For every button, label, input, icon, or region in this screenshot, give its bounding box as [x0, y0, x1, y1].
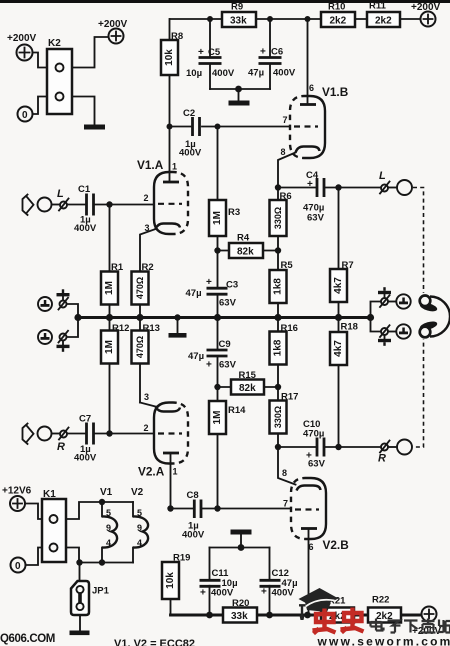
node C2 right R3 junction: [215, 124, 221, 130]
svg-text:C8: C8: [187, 490, 199, 501]
svg-text:+: +: [261, 587, 267, 598]
node C8 left junction: [167, 505, 173, 511]
svg-text:1M: 1M: [104, 340, 115, 354]
svg-text:1k8: 1k8: [273, 339, 284, 356]
terminal +200V bottom right: [412, 607, 442, 638]
node R3-R4-C3 junction: [214, 247, 220, 253]
resistor R17 330: [270, 387, 299, 447]
terminal +200V top right: [411, 2, 441, 27]
ground below C5/C6: [229, 89, 250, 106]
svg-text:R10: R10: [328, 2, 345, 13]
svg-text:1M: 1M: [104, 281, 115, 295]
wire K1 bottom contact to heaters: [66, 548, 133, 563]
resistor R19 10k: [162, 553, 190, 616]
terminal +200V K2 output: [98, 19, 128, 44]
capacitor C2 1u 400V: [170, 108, 291, 159]
capacitor C6 47u 400V: [248, 19, 296, 89]
node rail-C11 junction: [206, 612, 213, 619]
jack headphone R (circle with plug): [388, 324, 411, 338]
svg-text:9: 9: [106, 523, 111, 533]
svg-text:6: 6: [309, 83, 314, 93]
svg-text:47µ: 47µ: [248, 68, 264, 79]
watermark character chong 2: [341, 608, 364, 633]
wire +12V6 to K1: [25, 504, 42, 520]
node R15-R16-R17 junction: [275, 384, 281, 390]
wire V2.A anode to C8: [170, 453, 172, 509]
node C11-C12 common junction: [238, 544, 245, 551]
svg-text:+200V: +200V: [7, 33, 37, 44]
svg-text:1: 1: [172, 162, 177, 172]
svg-text:R22: R22: [372, 595, 389, 606]
node R17 / V2.B cathode / C10: [275, 444, 281, 450]
svg-text:400V: 400V: [182, 530, 205, 541]
triode V1.A: [137, 158, 188, 234]
wire C11/C12 common top: [210, 547, 270, 549]
watermark graduation cap: [299, 588, 339, 620]
resistor R13 470: [132, 318, 149, 403]
svg-text:V1.A: V1.A: [137, 158, 164, 172]
caption Q606.COM: [0, 633, 55, 645]
svg-text:10k: 10k: [164, 49, 175, 66]
resistor R9 33k: [222, 2, 256, 28]
svg-text:V1.B: V1.B: [322, 85, 348, 99]
node heater top V1 junction: [99, 499, 105, 505]
input plug L: [23, 195, 34, 216]
svg-text:R6: R6: [280, 191, 292, 202]
resistor R3 1M: [209, 127, 240, 251]
label R13: [143, 323, 160, 334]
svg-text:4: 4: [137, 538, 142, 548]
resistor R7 4k7: [330, 188, 354, 317]
svg-text:V1, V2 = ECC82: V1, V2 = ECC82: [114, 638, 195, 646]
svg-text:C3: C3: [226, 280, 238, 291]
svg-text:R2: R2: [142, 262, 154, 273]
input circle L: [38, 198, 52, 212]
svg-text:400V: 400V: [212, 68, 235, 79]
svg-text:400V: 400V: [179, 148, 202, 159]
svg-text:C9: C9: [219, 339, 231, 350]
svg-text:JP1: JP1: [92, 586, 110, 597]
svg-text:9: 9: [137, 523, 142, 533]
node C10 / R18 junction: [335, 444, 341, 450]
wire bottom +200V rail: [171, 614, 422, 617]
heater winding V2 pins 5-9-4: [131, 487, 148, 563]
svg-text:400V: 400V: [74, 223, 97, 234]
caption V1,V2 = ECC82: [114, 638, 195, 646]
svg-text:Q606.COM: Q606.COM: [0, 633, 55, 645]
wire contact L common to bus: [67, 304, 79, 318]
resistor R6 330: [270, 188, 292, 251]
svg-text:R9: R9: [231, 2, 243, 13]
svg-text:0: 0: [22, 110, 28, 121]
capacitor C8 1u 400V: [171, 490, 292, 541]
svg-text:33k: 33k: [230, 16, 247, 27]
svg-text:470Ω: 470Ω: [135, 277, 145, 299]
capacitor C5 10u 400V: [186, 19, 235, 89]
capacitor C12 47u 400V: [260, 548, 298, 616]
triode V2.B: [282, 468, 349, 615]
wire K2 bottom contact to ground: [72, 97, 95, 125]
contact L output: [379, 170, 390, 194]
svg-text:C1: C1: [78, 184, 91, 195]
capacitor C9 47u 63V: [188, 318, 237, 388]
svg-text:2k2: 2k2: [330, 16, 347, 27]
svg-text:4: 4: [106, 538, 111, 548]
resistor R5 1k8: [270, 251, 294, 317]
svg-text:47µ: 47µ: [188, 351, 204, 362]
wire top +200V rail: [170, 18, 420, 20]
wire 0 to K1: [26, 548, 43, 566]
resistor R1 1M: [101, 205, 124, 317]
svg-text:5: 5: [106, 508, 111, 518]
wire K2 top contact to +200V out: [72, 37, 108, 68]
svg-text:R5: R5: [281, 260, 294, 271]
resistor R22 2k2: [368, 595, 401, 623]
node V1.B cathode / R6 / C4: [275, 184, 281, 190]
svg-text:400V: 400V: [211, 588, 234, 599]
svg-text:R3: R3: [228, 207, 240, 218]
ground on bus: [169, 318, 187, 338]
relay K2: [47, 38, 72, 114]
wire V1.A cathode to R2: [140, 229, 156, 272]
watermark text www.seworm.com: [317, 635, 450, 646]
svg-text:+: +: [206, 277, 212, 288]
terminal R output circle: [388, 440, 412, 455]
svg-text:C2: C2: [183, 108, 195, 119]
svg-text:+: +: [200, 588, 206, 599]
svg-text:47µ: 47µ: [186, 288, 202, 299]
ground (inverted) above C11/C12: [231, 530, 252, 548]
svg-text:L: L: [57, 188, 64, 200]
label R16: [281, 323, 298, 334]
svg-text:R8: R8: [171, 31, 183, 42]
svg-text:63V: 63V: [219, 298, 237, 309]
svg-text:400V: 400V: [272, 588, 295, 599]
jumper JP1: [71, 563, 110, 616]
svg-text:4k7: 4k7: [333, 340, 344, 357]
contact common L with ground: [57, 289, 70, 309]
label R12: [112, 323, 129, 334]
svg-text:L: L: [379, 170, 386, 182]
node rail-V2.B anode junction: [304, 612, 311, 619]
node C8 right R14 junction: [214, 505, 220, 511]
resistor R20 33k: [223, 598, 257, 623]
svg-text:R20: R20: [232, 598, 249, 609]
contact R output: [378, 441, 390, 465]
terminal L output circle: [388, 180, 412, 195]
svg-text:K2: K2: [48, 38, 61, 49]
node C4 / R7 junction: [335, 184, 341, 190]
wire contact R common to bus: [67, 318, 79, 338]
wire bus to output contacts: [371, 302, 381, 332]
terminal 0 left: [18, 107, 33, 122]
capacitor C1 1u 400V: [67, 184, 154, 234]
resistor R16 1k8: [270, 318, 287, 388]
svg-text:5: 5: [137, 508, 142, 518]
svg-text:www.seworm.com: www.seworm.com: [317, 635, 450, 646]
node rail-C6 junction: [267, 16, 273, 22]
svg-text:63V: 63V: [307, 213, 325, 224]
svg-text:2: 2: [144, 193, 149, 203]
capacitor C7 1u 400V: [67, 414, 154, 464]
node heater bottom V1 junction: [99, 559, 105, 565]
svg-text:1M: 1M: [212, 411, 223, 425]
top border bar: [0, 0, 450, 3]
svg-text:400V: 400V: [74, 453, 97, 464]
headphones icon: [418, 293, 450, 339]
svg-text:330Ω: 330Ω: [273, 406, 283, 428]
svg-text:R4: R4: [237, 233, 250, 244]
svg-text:R: R: [57, 441, 65, 453]
node C1-R1 junction: [106, 201, 112, 207]
wire main bus: [78, 316, 371, 319]
svg-text:7: 7: [283, 115, 288, 125]
node heater bottom JP1 junction: [76, 559, 82, 565]
capacitor C10 470u 63V: [278, 419, 339, 470]
resistor R21 2k2: [321, 596, 354, 623]
svg-text:R17: R17: [281, 392, 298, 403]
jack common R (circle with plug): [38, 330, 52, 344]
svg-text:1M: 1M: [212, 211, 223, 225]
label R18: [341, 322, 358, 333]
svg-text:+200V: +200V: [98, 19, 128, 30]
node C7-R12 junction: [106, 430, 112, 436]
svg-text:+: +: [198, 47, 204, 58]
svg-text:V2: V2: [131, 487, 144, 498]
svg-text:2: 2: [144, 423, 149, 433]
capacitor C4 470u 63V: [278, 170, 339, 224]
watermark text dianzi xiazaizhan: [371, 619, 450, 633]
capacitor C11 10u 400V: [200, 548, 238, 616]
node C5-C6 ground junction: [235, 86, 242, 93]
svg-text:2k2: 2k2: [375, 16, 392, 27]
svg-text:82k: 82k: [237, 247, 254, 258]
wire +200V to K2: [33, 53, 48, 68]
wire C10 to R output contact: [339, 446, 381, 448]
node rail-C12 junction: [266, 612, 273, 619]
svg-text:+: +: [307, 179, 313, 190]
svg-text:R11: R11: [369, 1, 387, 12]
resistor R2 470: [132, 262, 154, 317]
contact headphone R with ground: [378, 325, 391, 346]
svg-text:82k: 82k: [239, 383, 256, 394]
wire C5/C6 common: [210, 88, 270, 90]
resistor R15 82k: [218, 370, 279, 395]
resistor R8 10k: [161, 31, 183, 181]
node bus junctions: [74, 314, 374, 321]
svg-text:400V: 400V: [273, 68, 296, 79]
node rail-V1.B anode junction: [305, 16, 311, 22]
dashed stereo-jack link: [413, 188, 424, 448]
svg-text:V1: V1: [100, 487, 113, 498]
wire V2.B cathode lead: [278, 447, 296, 485]
svg-text:3: 3: [144, 392, 149, 402]
svg-text:8: 8: [281, 147, 286, 157]
terminal +200V left: [7, 33, 37, 61]
ground K2: [84, 125, 105, 130]
svg-text:C7: C7: [79, 414, 91, 425]
svg-text:R15: R15: [239, 370, 257, 381]
svg-text:8: 8: [282, 468, 287, 478]
svg-text:R: R: [378, 453, 386, 465]
ground below JP1: [70, 615, 90, 635]
svg-text:10µ: 10µ: [186, 68, 202, 79]
wire K1 top contact to heaters: [66, 502, 133, 519]
terminal +12V6: [2, 486, 32, 512]
input plug R: [23, 424, 34, 445]
svg-text:+12V6: +12V6: [2, 486, 32, 497]
input circle R: [38, 427, 52, 441]
wire R8 top lead: [169, 19, 171, 40]
terminal 0 bottom: [11, 558, 26, 573]
svg-text:C6: C6: [271, 47, 283, 58]
svg-text:R14: R14: [228, 405, 246, 416]
wire R13 to V2.A cathode: [140, 403, 156, 407]
contact R input: [52, 428, 69, 454]
svg-text:4k7: 4k7: [333, 277, 344, 294]
jack headphone L (circle with plug): [388, 294, 411, 308]
wire 0 to K2: [33, 97, 48, 115]
node R4-R5-R6 junction: [275, 247, 281, 253]
svg-text:330Ω: 330Ω: [273, 207, 283, 229]
node C9-R15-R14 junction: [214, 384, 220, 390]
svg-text:C5: C5: [208, 47, 221, 58]
svg-text:10k: 10k: [165, 572, 176, 589]
triode V1.B: [278, 19, 348, 185]
wire C4 to L output contact: [339, 187, 381, 189]
node rail-C5 junction: [207, 16, 213, 22]
resistor R11 2k2: [367, 1, 400, 28]
jack common L (circle with plug): [38, 297, 52, 311]
watermark character chong 1: [313, 609, 336, 634]
contact L input: [52, 188, 69, 211]
svg-text:470µ: 470µ: [303, 429, 324, 440]
svg-text:7: 7: [283, 499, 288, 509]
svg-text:K1: K1: [43, 489, 56, 500]
resistor R10 2k2: [321, 2, 355, 28]
contact common R with ground: [57, 331, 70, 352]
svg-text:6: 6: [309, 542, 314, 552]
resistor R12 1M: [101, 318, 118, 434]
capacitor C3 47u 63V: [186, 251, 239, 317]
svg-text:R19: R19: [173, 553, 190, 564]
contact headphone L with ground: [378, 287, 391, 307]
node C2 left junction: [167, 124, 173, 130]
resistor R14 1M: [209, 387, 246, 509]
svg-text:V2.A: V2.A: [138, 465, 165, 479]
svg-text:V2.B: V2.B: [323, 538, 349, 552]
triode V2.A: [138, 392, 188, 479]
heater winding V1 pins 5-9-4: [100, 487, 117, 563]
svg-text:+: +: [206, 360, 212, 371]
svg-text:1: 1: [173, 467, 178, 477]
svg-text:63V: 63V: [308, 459, 326, 470]
svg-text:R7: R7: [342, 260, 354, 271]
resistor R4 82k: [218, 233, 279, 259]
svg-text:470Ω: 470Ω: [135, 336, 145, 358]
svg-text:1k8: 1k8: [273, 278, 284, 295]
relay K1: [42, 489, 66, 562]
svg-text:+: +: [260, 47, 266, 58]
resistor R18 4k7: [330, 318, 347, 448]
svg-text:+200V: +200V: [411, 2, 441, 13]
svg-text:R1: R1: [111, 262, 124, 273]
svg-text:63V: 63V: [219, 360, 237, 371]
svg-text:0: 0: [15, 561, 21, 572]
svg-text:33k: 33k: [231, 611, 248, 622]
